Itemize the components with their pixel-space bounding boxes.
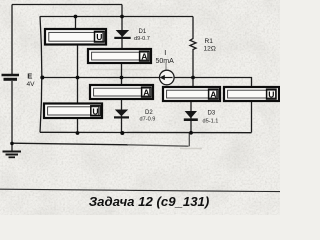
- svg-text:12Ω: 12Ω: [204, 45, 216, 52]
- svg-text:R1: R1: [205, 38, 214, 45]
- svg-text:A: A: [141, 52, 147, 62]
- svg-text:A: A: [210, 90, 216, 100]
- svg-text:d5-1.1: d5-1.1: [203, 119, 219, 125]
- svg-text:d7-0.9: d7-0.9: [140, 116, 156, 122]
- svg-text:D2: D2: [145, 110, 153, 116]
- svg-text:E: E: [27, 71, 32, 80]
- svg-text:U: U: [96, 32, 102, 42]
- svg-text:A: A: [143, 88, 149, 98]
- svg-text:D3: D3: [208, 110, 216, 116]
- svg-text:I: I: [164, 48, 166, 57]
- svg-text:D1: D1: [139, 29, 147, 35]
- svg-text:Задача 12 (с9_131): Задача 12 (с9_131): [89, 194, 210, 209]
- svg-text:d9-0.7: d9-0.7: [134, 36, 150, 42]
- svg-text:50mA: 50mA: [156, 58, 175, 65]
- svg-text:4V: 4V: [27, 81, 36, 88]
- svg-text:U: U: [92, 106, 98, 116]
- svg-text:U: U: [268, 90, 274, 100]
